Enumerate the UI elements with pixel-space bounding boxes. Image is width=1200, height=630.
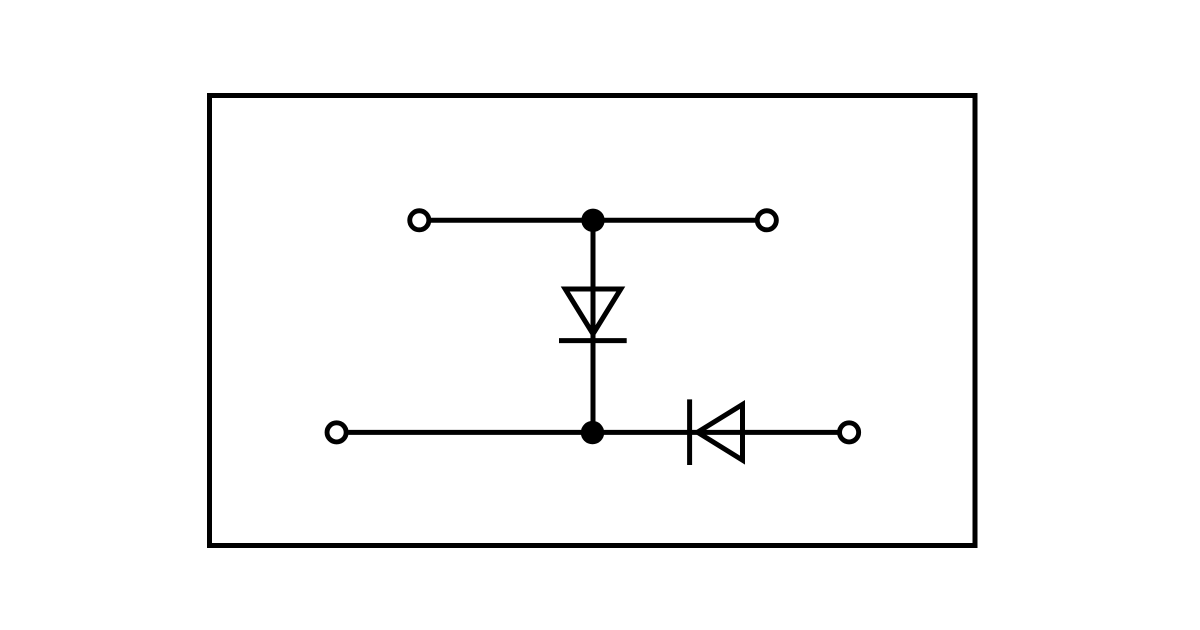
terminal 2 (top-right open circle) xyxy=(757,211,776,230)
diode D2 triangle (pointing left) xyxy=(698,405,743,461)
terminal 1 (top-left open circle) xyxy=(410,211,429,230)
terminal 3 (bottom-left open circle) xyxy=(327,423,346,442)
node (top junction) xyxy=(581,209,604,232)
wire (bottom rail) xyxy=(348,430,837,435)
wire (top rail) xyxy=(431,218,755,223)
terminal 4 (bottom-right open circle) xyxy=(840,423,859,442)
diode D1 (cathode down) triangle xyxy=(565,289,621,334)
node (bottom junction) xyxy=(581,421,604,444)
wire (vertical between junctions) xyxy=(591,220,596,432)
diode D1 cathode bar xyxy=(559,338,627,343)
diode D2 (cathode left) bar xyxy=(687,399,692,465)
border frame xyxy=(210,96,976,546)
